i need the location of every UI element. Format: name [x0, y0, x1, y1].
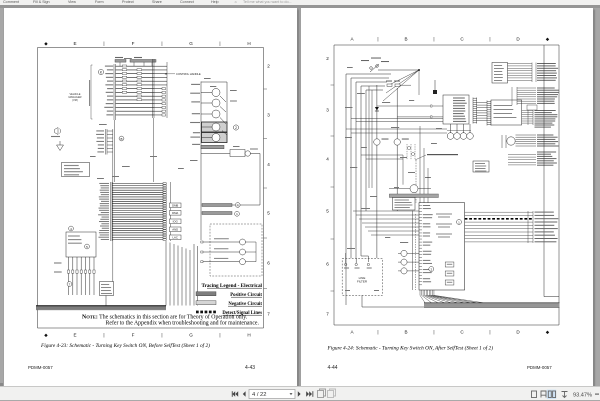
- svg-text:D: D: [516, 329, 520, 334]
- svg-text:◆: ◆: [546, 36, 550, 41]
- svg-text:F: F: [132, 41, 135, 46]
- svg-text:◆: ◆: [44, 41, 48, 46]
- svg-text:E: E: [73, 41, 76, 46]
- svg-text:G: G: [189, 332, 193, 337]
- svg-text:F: F: [132, 332, 135, 337]
- svg-text:|: |: [489, 36, 490, 41]
- svg-text:|: |: [433, 36, 434, 41]
- svg-text:◆: ◆: [546, 329, 550, 334]
- svg-text:A: A: [350, 36, 354, 41]
- svg-text:5: 5: [326, 209, 329, 214]
- svg-text:(VM): (VM): [72, 98, 78, 102]
- svg-text:5: 5: [267, 211, 270, 216]
- svg-text:DMA: DMA: [172, 211, 178, 215]
- svg-text:PDMM-0057: PDMM-0057: [527, 365, 552, 370]
- svg-text:6: 6: [326, 262, 329, 267]
- svg-text:3: 3: [267, 113, 270, 118]
- svg-text:|: |: [219, 41, 220, 46]
- svg-text:B: B: [404, 36, 407, 41]
- svg-text:4 / 22: 4 / 22: [252, 392, 267, 398]
- svg-text:C: C: [460, 36, 464, 41]
- svg-text:Figure 4-23: Schematic - Tur: Figure 4-23: Schematic - Turning Key Swi…: [40, 342, 210, 349]
- svg-text:2: 2: [326, 56, 329, 61]
- svg-text:|: |: [219, 332, 220, 337]
- svg-text:B: B: [120, 137, 122, 141]
- svg-text:4-44: 4-44: [328, 365, 338, 371]
- svg-text:G: G: [189, 41, 193, 46]
- svg-text:NOTE: The schematics in this: NOTE: The schematics in this section are…: [82, 314, 248, 321]
- svg-text:PDMM-0057: PDMM-0057: [28, 365, 53, 370]
- svg-text:IOG: IOG: [173, 219, 178, 223]
- svg-text:4: 4: [267, 162, 270, 167]
- svg-text:|: |: [377, 329, 378, 334]
- svg-text:|: |: [103, 332, 104, 337]
- svg-text:|: |: [489, 329, 490, 334]
- svg-text:D: D: [516, 36, 520, 41]
- svg-text:B: B: [404, 329, 407, 334]
- svg-text:|: |: [161, 332, 162, 337]
- svg-text:H: H: [247, 41, 250, 46]
- svg-text:CONTROL HANDLE: CONTROL HANDLE: [176, 72, 201, 76]
- svg-text:Refer to the Appendix when tro: Refer to the Appendix when troubleshooti…: [106, 320, 260, 327]
- svg-text:|: |: [161, 41, 162, 46]
- svg-text:6: 6: [267, 261, 270, 266]
- svg-text:Figure 4-24: Schematic - Tu: Figure 4-24: Schematic - Turning Key Swi…: [327, 345, 494, 352]
- svg-text:7: 7: [326, 312, 329, 317]
- svg-text:A: A: [350, 329, 354, 334]
- svg-text:LAC: LAC: [172, 235, 177, 239]
- svg-text:C: C: [460, 329, 464, 334]
- svg-text:DMB: DMB: [172, 203, 178, 207]
- svg-text:H: H: [247, 332, 250, 337]
- svg-text:93.47%: 93.47%: [573, 392, 592, 398]
- svg-text:|: |: [433, 329, 434, 334]
- svg-text:|: |: [103, 41, 104, 46]
- svg-text:4: 4: [326, 157, 329, 162]
- svg-text:7: 7: [267, 312, 270, 317]
- svg-text:|: |: [377, 36, 378, 41]
- svg-text:2: 2: [267, 64, 270, 69]
- svg-text:2: 2: [235, 126, 237, 130]
- svg-text:FILTER: FILTER: [357, 280, 368, 284]
- svg-text:AND: AND: [172, 227, 178, 231]
- svg-text:E: E: [73, 332, 76, 337]
- svg-text:3: 3: [326, 108, 329, 113]
- svg-text:4-43: 4-43: [245, 365, 255, 371]
- svg-text:◆: ◆: [44, 332, 48, 337]
